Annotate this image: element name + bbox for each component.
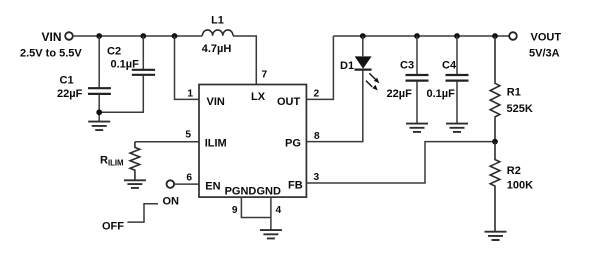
svg-text:22µF: 22µF	[57, 88, 83, 100]
wire input rail	[73, 35, 203, 37]
svg-text:EN: EN	[205, 181, 220, 193]
svg-text:R2: R2	[507, 165, 521, 177]
svg-text:OFF: OFF	[102, 221, 124, 233]
capacitor C4	[427, 36, 469, 124]
ground R2	[485, 232, 507, 240]
svg-text:PG: PG	[285, 137, 301, 149]
capacitor C3	[387, 36, 429, 124]
svg-text:ON: ON	[163, 196, 180, 208]
svg-text:6: 6	[186, 173, 192, 184]
resistor R2	[490, 142, 533, 232]
svg-text:9: 9	[232, 205, 238, 216]
wire L1 to LX pin 7	[233, 36, 256, 85]
svg-text:4: 4	[276, 205, 282, 216]
svg-text:22µF: 22µF	[387, 88, 413, 100]
svg-text:L1: L1	[211, 15, 224, 27]
wire pin 9 PGND / pin 4 GND	[232, 197, 282, 230]
terminal VIN	[20, 30, 82, 60]
svg-text:C2: C2	[107, 46, 121, 58]
wire pin 3 FB net	[306, 142, 495, 183]
resistor R1	[490, 36, 533, 142]
svg-text:8: 8	[314, 131, 320, 142]
svg-text:C3: C3	[400, 60, 414, 72]
svg-text:PGND: PGND	[225, 186, 257, 198]
svg-text:3: 3	[314, 172, 320, 183]
svg-text:4.7µH: 4.7µH	[202, 43, 232, 55]
node R1	[492, 33, 498, 39]
svg-text:1: 1	[187, 89, 193, 100]
capacitor C2	[99, 36, 155, 112]
node C2 junction	[140, 33, 146, 39]
svg-text:0.1µF: 0.1µF	[427, 88, 456, 100]
LED D1 emission arrows	[366, 73, 380, 90]
svg-text:VIN: VIN	[41, 30, 61, 44]
wire pin 5 ILIM	[135, 141, 199, 143]
svg-text:7: 7	[262, 70, 268, 81]
svg-text:100K: 100K	[507, 180, 533, 192]
ground input	[88, 122, 110, 131]
svg-text:VIN: VIN	[207, 96, 225, 108]
svg-text:LX: LX	[251, 91, 266, 103]
svg-text:0.1µF: 0.1µF	[111, 59, 140, 71]
node C1/C2 ground junction	[96, 109, 102, 115]
svg-text:VOUT: VOUT	[531, 32, 562, 44]
svg-text:ILIM: ILIM	[205, 137, 227, 149]
node FB divider junction	[492, 139, 498, 145]
node C4	[454, 33, 460, 39]
svg-text:525K: 525K	[507, 103, 533, 115]
node C1 junction	[96, 33, 102, 39]
wire pin 8 PG to D1	[306, 140, 362, 143]
node C3	[414, 33, 420, 39]
svg-text:GND: GND	[257, 186, 282, 198]
ground IC	[260, 230, 282, 238]
svg-text:2: 2	[314, 89, 320, 100]
ground C3	[406, 124, 428, 132]
capacitor C1	[57, 36, 111, 122]
wire pin 1 VIN	[175, 36, 200, 99]
wire pin 2 OUT to output rail	[306, 36, 333, 99]
ground RILIM	[124, 180, 146, 188]
svg-text:5V/3A: 5V/3A	[529, 48, 560, 60]
svg-text:OUT: OUT	[277, 96, 301, 108]
terminal VOUT	[509, 32, 561, 60]
LED D1	[340, 36, 372, 142]
op-amp U1 (converter IC)	[199, 85, 306, 198]
svg-text:C1: C1	[60, 75, 74, 87]
svg-text:5: 5	[185, 130, 191, 141]
svg-text:2.5V to 5.5V: 2.5V to 5.5V	[20, 48, 82, 60]
resistor RILIM	[100, 142, 140, 181]
svg-text:R1: R1	[507, 87, 521, 99]
inductor L1	[202, 15, 233, 56]
ground C4	[446, 124, 468, 132]
svg-text:C4: C4	[442, 60, 457, 72]
node D1	[360, 33, 366, 39]
ON/OFF waveform annotation	[102, 196, 179, 233]
svg-text:FB: FB	[288, 180, 303, 192]
svg-text:D1: D1	[340, 60, 354, 72]
node pin1 junction	[172, 33, 178, 39]
wire output rail	[333, 35, 509, 37]
terminal EN (pin 6)	[167, 173, 200, 188]
